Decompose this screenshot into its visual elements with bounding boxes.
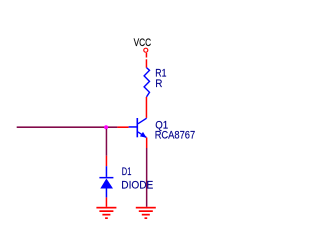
wire junction down to D1 (dark): [106, 129, 108, 156]
emitter arrowhead: [140, 132, 147, 138]
triangle (anode, pointing up): [100, 179, 113, 189]
wire to D1 cathode (red): [106, 156, 108, 166]
svg-text:RCA8767: RCA8767: [155, 130, 196, 142]
base lead (blue): [129, 126, 137, 128]
ground (right): [136, 207, 156, 219]
transistor Q1 (NPN): [129, 118, 147, 138]
base bar: [137, 118, 139, 137]
pin stub from VCC terminal: [146, 53, 148, 58]
collector diagonal: [138, 118, 147, 124]
wire horizontal input net (dark): [17, 126, 118, 128]
wire R1 bottom to Q1 collector: [146, 97, 148, 118]
wire VCC terminal to R1 top: [146, 59, 148, 67]
anode lead (blue): [106, 189, 108, 198]
svg-text:R: R: [155, 78, 162, 90]
resistor R1: [144, 68, 149, 97]
wire emitter to right ground (dark): [146, 148, 148, 207]
wire junction to base (red): [117, 126, 128, 128]
junction dot: [104, 125, 108, 129]
svg-text:VCC: VCC: [134, 37, 152, 49]
power terminal VCC (open circle): [144, 48, 148, 52]
diode D1: [99, 166, 113, 197]
emitter diagonal: [138, 132, 147, 138]
cathode bar: [99, 177, 113, 179]
ground (left): [96, 207, 116, 219]
cathode lead (blue): [106, 166, 108, 177]
wire emitter stub (red): [146, 138, 148, 149]
svg-text:D1: D1: [122, 166, 132, 178]
svg-text:DIODE: DIODE: [121, 180, 153, 192]
wire D1 anode to left ground (red): [106, 197, 108, 206]
